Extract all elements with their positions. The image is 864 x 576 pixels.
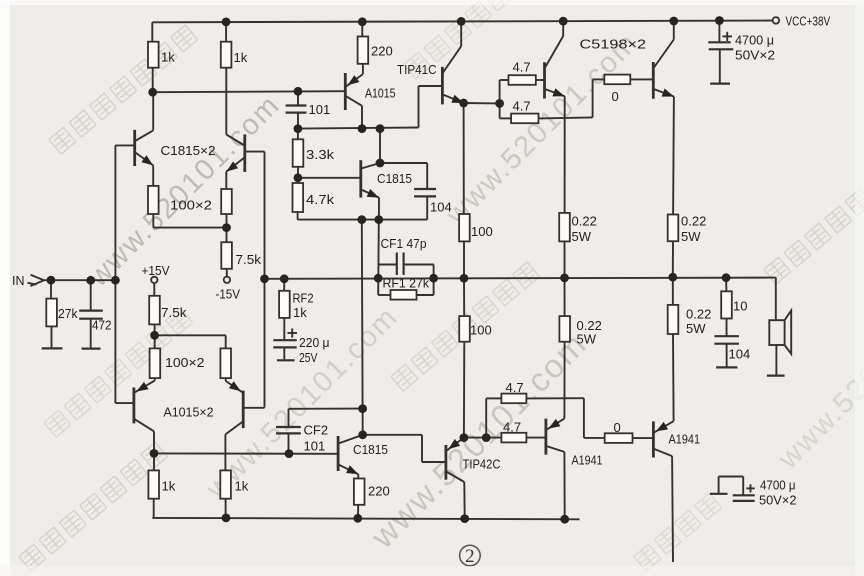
svg-text:101: 101 [304,439,326,454]
svg-text:TIP42C: TIP42C [463,457,501,472]
svg-text:5W: 5W [686,321,706,336]
svg-text:5W: 5W [681,229,701,244]
svg-text:A1015×2: A1015×2 [164,405,214,420]
svg-text:+15V: +15V [142,263,170,278]
svg-text:10: 10 [733,299,747,314]
svg-text:4.7k: 4.7k [306,192,335,207]
svg-text:-15V: -15V [216,287,241,302]
svg-text:A1015: A1015 [365,86,396,101]
svg-text:100×2: 100×2 [170,198,212,213]
svg-text:5W: 5W [572,229,592,244]
svg-text:A1941: A1941 [572,453,603,468]
svg-text:27k: 27k [58,306,78,321]
svg-text:4700 μ: 4700 μ [760,478,796,493]
svg-text:7.5k: 7.5k [236,252,262,267]
svg-text:220: 220 [371,44,393,59]
svg-text:CF1 47p: CF1 47p [381,236,427,251]
svg-text:C1815: C1815 [377,171,412,186]
svg-text:RF1 27k: RF1 27k [383,276,430,291]
svg-text:104: 104 [430,200,452,215]
svg-text:104: 104 [729,347,751,362]
svg-text:3.3k: 3.3k [306,147,335,162]
svg-text:1k: 1k [235,479,249,494]
svg-text:101: 101 [309,102,331,117]
svg-text:CF2: CF2 [304,423,329,438]
svg-text:C1815: C1815 [353,442,388,457]
svg-text:1k: 1k [234,50,248,65]
svg-text:0.22: 0.22 [681,214,706,229]
svg-text:4.7: 4.7 [513,99,531,114]
svg-text:VCC+38V: VCC+38V [786,14,831,29]
svg-text:5W: 5W [577,332,597,347]
svg-text:0: 0 [614,420,621,435]
svg-text:C5198×2: C5198×2 [580,37,647,52]
svg-text:0.22: 0.22 [572,214,597,229]
svg-text:220 μ: 220 μ [299,335,330,350]
svg-text:1k: 1k [161,50,175,65]
svg-text:4.7: 4.7 [503,420,521,435]
svg-text:1k: 1k [162,479,176,494]
svg-text:C1815×2: C1815×2 [161,143,216,158]
svg-text:TIP41C: TIP41C [397,62,437,77]
svg-text:25V: 25V [299,350,318,365]
svg-text:472: 472 [92,318,112,333]
svg-text:7.5k: 7.5k [161,305,187,320]
svg-text:A1941: A1941 [669,432,701,447]
svg-text:4.7: 4.7 [513,60,531,75]
svg-text:0: 0 [612,89,619,104]
svg-text:50V×2: 50V×2 [759,493,797,508]
svg-text:4700 μ: 4700 μ [735,33,774,48]
svg-text:100: 100 [470,323,492,338]
svg-text:RF2: RF2 [293,291,314,306]
svg-text:100: 100 [471,224,493,239]
svg-text:50V×2: 50V×2 [735,48,775,63]
svg-text:1k: 1k [293,305,307,320]
svg-text:100×2: 100×2 [165,355,205,370]
svg-text:IN: IN [12,273,25,288]
svg-text:2: 2 [465,546,475,567]
svg-text:0.22: 0.22 [686,307,711,322]
svg-text:220: 220 [368,484,390,499]
svg-text:4.7: 4.7 [506,380,524,395]
